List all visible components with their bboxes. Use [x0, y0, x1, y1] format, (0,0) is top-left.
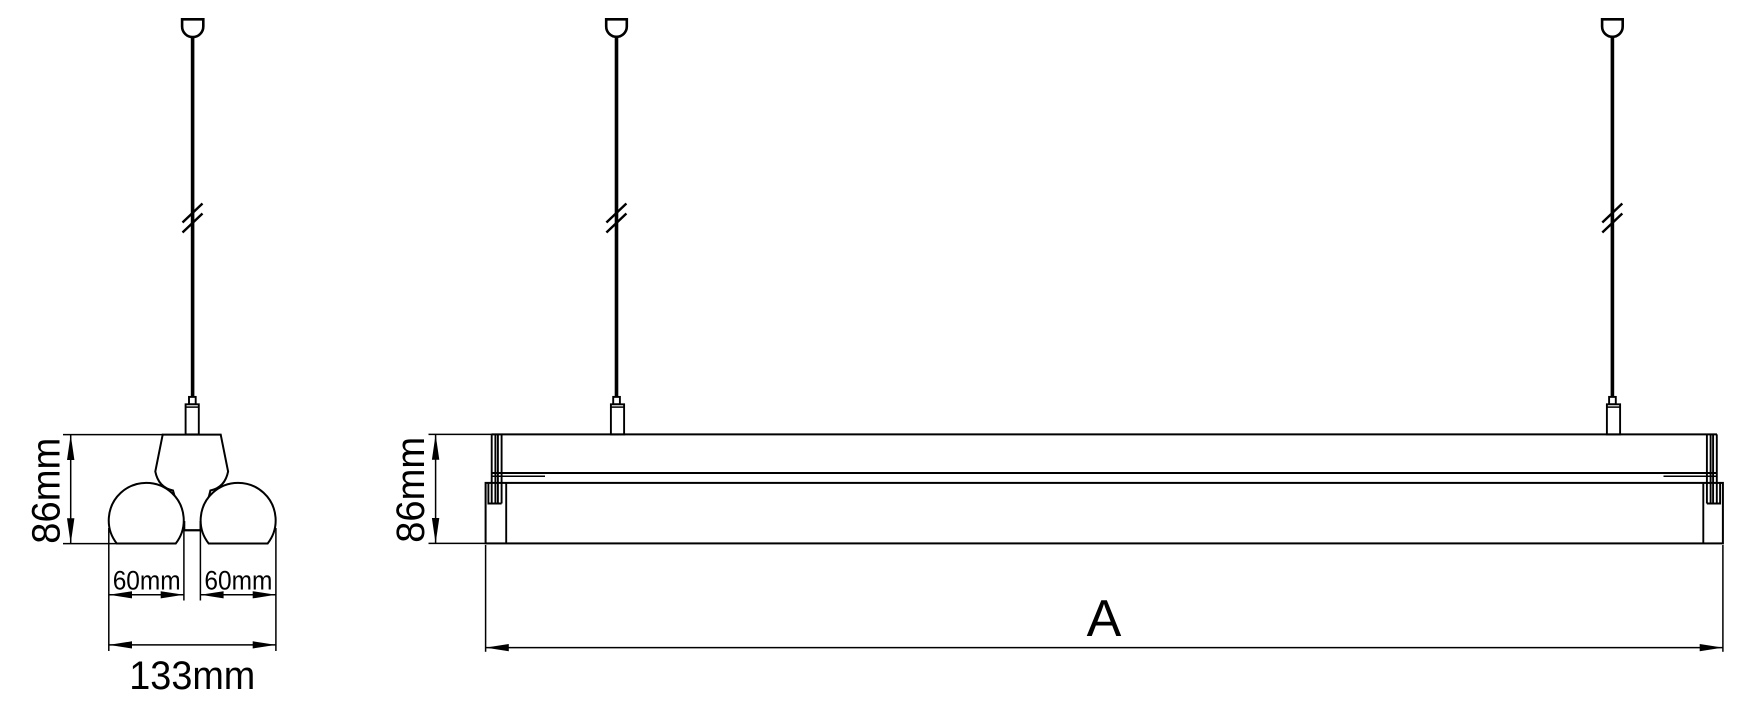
- arrow 86mm top (end view): [67, 435, 74, 460]
- arrow 60mm right-right: [253, 591, 276, 598]
- dimension line 133mm: [109, 644, 276, 646]
- dimension line 86mm (side view): [435, 434, 437, 543]
- svg-text:86mm: 86mm: [24, 438, 68, 544]
- wire break slash lower: [183, 214, 203, 233]
- tube right (end view): [201, 483, 276, 544]
- suspension wire (end view): [191, 37, 195, 397]
- tube left (end view): [109, 483, 184, 544]
- arrow 60mm left-left: [109, 591, 132, 598]
- wire break slash lower (left wire): [606, 214, 626, 233]
- extension line A left: [485, 545, 487, 652]
- suspension wire left (side view): [615, 37, 619, 397]
- extension line top (86mm, side view): [429, 433, 492, 435]
- clip bottom right: [1707, 483, 1720, 504]
- channel left wall lines: [491, 434, 493, 503]
- channel bottom edge (side view): [492, 472, 1718, 474]
- channel top edge (side view): [492, 433, 1718, 435]
- tube body (side view): [486, 483, 1723, 544]
- bracket body (end view): [155, 435, 228, 531]
- channel bottom flange line left end: [492, 475, 545, 477]
- arrow A left: [486, 644, 509, 651]
- extension line top (86mm, end view): [63, 434, 163, 436]
- dimension line A: [486, 647, 1723, 649]
- extension line tube1 outer: [108, 528, 110, 651]
- svg-text:133mm: 133mm: [129, 654, 255, 698]
- dimension line 60mm right: [200, 594, 276, 596]
- extension line A right: [1722, 545, 1724, 652]
- wire break slash upper (right wire): [1602, 204, 1622, 223]
- wire gripper neck left (side view): [613, 397, 620, 404]
- wire gripper neck (end view): [189, 397, 196, 404]
- arrow 133mm right: [253, 641, 276, 648]
- wire gripper body (end view): [186, 404, 199, 434]
- wire gripper inner line left (side view): [611, 406, 624, 408]
- dimension line 86mm (end view): [70, 435, 72, 544]
- svg-text:60mm: 60mm: [204, 566, 272, 596]
- svg-text:60mm: 60mm: [113, 566, 181, 596]
- wire break slash upper (left wire): [606, 204, 626, 223]
- svg-text:86mm: 86mm: [389, 437, 433, 543]
- arrow 86mm bottom (end view): [67, 518, 74, 543]
- extension line bottom (86mm, side view): [429, 542, 486, 544]
- extension line tube1 inner: [183, 530, 185, 600]
- channel bottom flange line right end: [1664, 475, 1717, 477]
- tube end cap right (side view): [1702, 483, 1704, 544]
- arrow A right: [1700, 644, 1723, 651]
- suspension wire right (side view): [1611, 37, 1615, 397]
- extension line tube2 outer: [275, 528, 277, 651]
- wire gripper body right (side view): [1607, 404, 1620, 434]
- dimension line 60mm left: [109, 594, 184, 596]
- extension line bottom (86mm, end view): [63, 543, 118, 545]
- arrow 60mm right-left: [200, 591, 223, 598]
- wire gripper neck right (side view): [1609, 397, 1616, 404]
- arrow 133mm left: [109, 641, 132, 648]
- arrow 60mm left-right: [161, 591, 184, 598]
- canopy cup right (side view): [1602, 19, 1623, 37]
- wire break slash upper: [183, 204, 203, 223]
- arrow 86mm top (side view): [432, 434, 439, 459]
- wire break slash lower (right wire): [1602, 214, 1622, 233]
- suspension canopy cup (end view): [182, 19, 203, 37]
- arrow 86mm bottom (side view): [432, 518, 439, 543]
- bracket center post (end view): [184, 521, 200, 530]
- svg-text:A: A: [1087, 590, 1122, 648]
- channel right wall lines: [1716, 434, 1718, 503]
- clip bottom left: [488, 483, 501, 504]
- wire gripper inner line (end view): [186, 406, 199, 408]
- extension line tube2 inner: [199, 530, 201, 600]
- canopy cup left (side view): [606, 19, 627, 36]
- wire gripper body left (side view): [611, 404, 624, 434]
- wire gripper inner line right (side view): [1607, 406, 1620, 408]
- tube end cap left (side view): [505, 483, 507, 544]
